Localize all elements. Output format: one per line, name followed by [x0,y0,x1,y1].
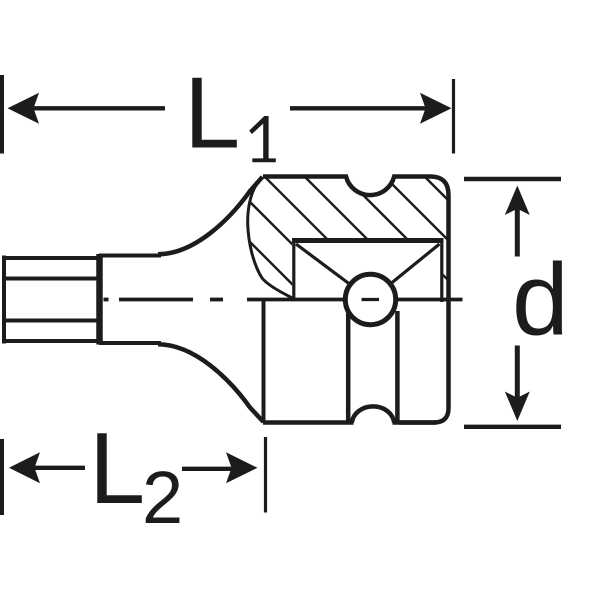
dimension L1 left tick [0,75,4,154]
centerline solid through body (left of ball) [247,298,345,302]
hex bit upper flat line [2,277,99,281]
svg-text:2: 2 [142,456,183,539]
svg-text:L: L [89,413,145,525]
socket body bottom edge right of groove [393,420,437,425]
dimension L1 right line [290,106,432,110]
dimension L2 right tick [264,437,267,513]
hex bit lower flat line [2,319,99,323]
bottom groove dome [352,406,394,422]
hex bit top edge [2,256,99,260]
drive cavity top edge [292,238,444,243]
section inner S-curve boundary [248,185,294,299]
dimension d lower tail [515,346,520,399]
dimension d upper tail [515,208,520,257]
dimension d bottom extension line [464,425,561,429]
label L1 : subscript 1 (technical style with foot serif) [249,116,276,162]
dimension L1 right tick [452,79,455,154]
neck top line [99,254,161,258]
hex bit right shoulder [96,254,103,345]
cavity right chamfer diagonal [392,244,440,283]
svg-text:L: L [184,58,240,170]
detent ball [345,274,395,324]
section hatching [80,112,580,332]
centerline dash-dot segments [104,298,109,302]
drive cavity left edge [292,239,295,302]
dimension d bottom arrowhead [505,392,530,422]
ball groove slot with bottom notch [348,311,397,422]
socket body bottom edge left of groove [263,420,354,425]
dimension L2 right arrowhead [226,452,258,483]
dimension L2 right line [182,467,232,471]
flare top curve [158,177,263,255]
hex bit bottom edge [2,339,99,343]
dimension d top arrowhead [505,186,530,216]
socket body lower-left vertical edge [262,300,266,421]
cavity left chamfer diagonal [296,244,350,284]
centerline solid through body (right of ball) [396,298,463,302]
hex bit left edge [2,256,6,344]
dimension L2 left tick [0,439,4,515]
dimension d top extension line [464,177,561,181]
flare bottom curve [158,344,264,422]
drive cavity right edge [440,239,443,303]
dimension L1 left line [33,106,165,110]
dimension L1 right arrowhead [420,93,452,124]
socket body outline upper [263,177,449,423]
neck bottom line [99,341,161,345]
dimension L1 left arrowhead [8,93,40,124]
svg-text:d: d [512,243,569,357]
dimension L2 left line [34,466,85,470]
dimension L2 left arrowhead [9,452,40,483]
detent ball center dash [362,298,380,301]
